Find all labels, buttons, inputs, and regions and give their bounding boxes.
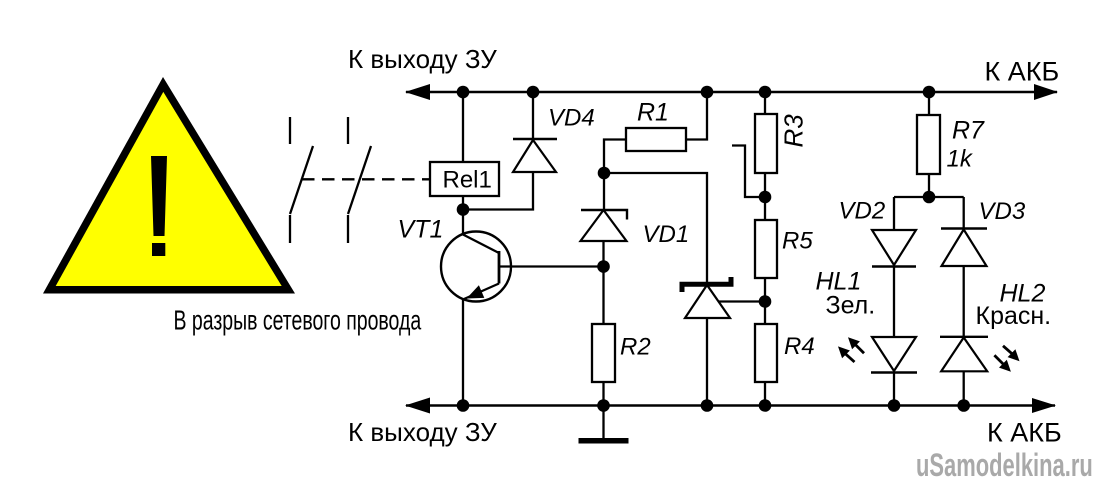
node: R1 / VD1 / TL wire — [598, 167, 611, 180]
svg-text:R3: R3 — [779, 114, 809, 148]
transistor VT1 circle — [441, 232, 511, 302]
LED HL1 triangle (pointing down) — [872, 337, 916, 371]
svg-text:VT1: VT1 — [398, 216, 444, 244]
relay contact S2 blade — [348, 146, 371, 214]
svg-text:К выходу ЗУ: К выходу ЗУ — [348, 417, 497, 447]
trimmer R3 wiper arm — [732, 146, 765, 198]
svg-text:Красн.: Красн. — [976, 302, 1052, 330]
LED HL1 light arrow 1 — [848, 337, 864, 353]
node: HL1 / bottom rail — [888, 399, 901, 412]
wire: node down to ground — [602, 406, 604, 440]
wire: left branch down to VD2 — [893, 197, 895, 230]
wire: Rel1 to collector node — [462, 196, 464, 210]
node: R5 / R4 / VD5 ref — [759, 295, 772, 308]
wire: HL2 to bottom rail — [963, 371, 965, 405]
node: top rail / VD4 — [527, 86, 540, 99]
LED HL2 cathode bar — [940, 336, 988, 338]
LED HL2 light arrow 1 — [1003, 346, 1020, 361]
mechanical linkage dashed line — [302, 178, 430, 180]
wire: R2 bottom to bottom rail — [602, 382, 604, 406]
LED HL1 cathode bar — [871, 371, 917, 373]
node: emitter / bottom rail — [457, 399, 470, 412]
wire: VD4 anode down and left to node — [463, 172, 533, 210]
wire: R1 right up to top rail — [686, 92, 707, 140]
wire: R3 bottom to node — [764, 173, 766, 197]
wire: VT1 base to VD1 node — [499, 265, 604, 267]
diode VD4 triangle — [513, 140, 556, 172]
wire: VT1 emitter to bottom rail — [462, 300, 464, 406]
resistor R7 body — [917, 115, 940, 174]
top rail wire — [406, 91, 1057, 93]
node: top rail / Rel1 — [457, 86, 470, 99]
diode VD4 cathode bar — [513, 138, 557, 140]
node: VD5 / bottom rail — [701, 399, 714, 412]
transistor VT1 emitter diagonal — [464, 284, 499, 300]
relay contact S1 blade — [290, 146, 313, 214]
wire: VD1 anode to base node — [602, 241, 604, 267]
wire: node to R4 top — [764, 302, 766, 325]
node: R2 / bottom rail / ground — [597, 399, 610, 412]
zener diode VD1 cathode bar with hook — [581, 210, 627, 220]
wire: VD3 to HL2 — [963, 266, 965, 337]
resistor R1 body — [626, 128, 686, 151]
relay contact S2 top terminal — [347, 117, 349, 144]
resistor R4 body — [755, 324, 777, 382]
exclamation mark bar — [151, 156, 167, 236]
diode VD2 cathode bar — [872, 265, 916, 267]
LED HL1 light arrow 2 — [838, 346, 855, 362]
wire: R4 bottom to bottom rail — [764, 382, 766, 406]
wire: top rail to Rel1 — [462, 92, 464, 162]
svg-text:R1: R1 — [637, 99, 669, 127]
transistor VT1 base bar — [498, 251, 501, 284]
exclamation mark dot — [152, 243, 165, 256]
relay contact S1 bottom terminal — [289, 215, 291, 243]
bottom rail wire — [406, 404, 1055, 406]
diode VD3 cathode bar — [941, 227, 987, 229]
wire: VD1 top to node — [603, 173, 605, 210]
wire: VD2 to HL1 — [893, 267, 895, 339]
trimmer resistor R3 body — [755, 114, 777, 173]
node: R7 / LED branches — [923, 191, 936, 204]
TL431 / zener VD5 cathode thick bar with bends — [682, 277, 731, 292]
node: top rail / R7 — [923, 86, 936, 99]
wire: top rail to R7 — [928, 92, 930, 115]
bottom rail right arrow — [1032, 398, 1056, 413]
svg-text:VD2: VD2 — [839, 198, 886, 225]
ground symbol — [579, 438, 629, 444]
relay contact S1 top terminal — [289, 117, 291, 144]
warning triangle yellow fill — [56, 92, 282, 286]
svg-text:R5: R5 — [782, 228, 813, 255]
LED HL2 triangle (pointing up) — [941, 338, 987, 372]
wire: node to R2 top — [602, 267, 604, 325]
transistor VT1 emitter arrow — [467, 285, 485, 298]
node: VD1 / base / R2 — [597, 260, 610, 273]
svg-text:R2: R2 — [620, 334, 651, 361]
wire: R7 bottom to split node — [928, 174, 930, 197]
bottom rail left arrow — [405, 398, 430, 414]
relay contact S2 bottom terminal — [347, 215, 349, 243]
svg-text:VD4: VD4 — [548, 105, 595, 132]
wire: VD5 anode to bottom rail — [706, 318, 708, 406]
relay coil Rel1 box — [430, 162, 499, 196]
wire: VD5 ref to R5/R4 node — [719, 300, 766, 302]
top rail right arrow — [1034, 84, 1058, 100]
diode VD2 triangle (pointing down) — [872, 230, 916, 265]
resistor R2 body — [592, 324, 615, 382]
node: Rel1 bottom / VD4 / collector — [457, 203, 470, 216]
watermark uSamodelkina.ru — [916, 447, 1093, 483]
svg-text:R7: R7 — [952, 117, 985, 145]
svg-text:uSamodelkina.ru: uSamodelkina.ru — [916, 447, 1093, 483]
LED HL2 light arrow 2 — [994, 355, 1011, 372]
wire: R5 bottom to node — [764, 278, 766, 302]
node: R3 / R5 — [759, 191, 772, 204]
node: R1 / top rail — [701, 86, 714, 99]
svg-text:VD3: VD3 — [979, 198, 1026, 225]
transistor VT1 collector wire — [462, 210, 464, 236]
wire: R1 left to VD1 top node — [604, 140, 626, 174]
resistor R5 body — [755, 220, 777, 278]
node: HL2 / bottom rail — [957, 399, 970, 412]
caption: В разрыв сетевого провода — [174, 305, 422, 336]
wire: branch split horizontal — [894, 196, 964, 198]
wire: VD1 node right to TL431 cathode — [604, 173, 707, 283]
transistor VT1 collector diagonal — [463, 235, 499, 254]
node: top rail / R3 — [759, 86, 772, 99]
wire: HL1 to bottom rail — [893, 373, 895, 406]
svg-text:Зел.: Зел. — [826, 292, 876, 320]
svg-text:К выходу ЗУ: К выходу ЗУ — [348, 44, 497, 74]
TL431 / zener VD5 triangle — [685, 285, 730, 318]
zener diode VD1 triangle — [581, 210, 627, 241]
svg-text:Rel1: Rel1 — [443, 167, 492, 194]
svg-text:К АКБ: К АКБ — [985, 56, 1060, 86]
svg-text:В разрыв сетевого провода: В разрыв сетевого провода — [174, 305, 422, 336]
svg-text:R4: R4 — [784, 333, 815, 360]
warning triangle border — [43, 77, 295, 294]
wire: node to R5 top — [764, 197, 766, 220]
svg-text:1k: 1k — [947, 146, 974, 173]
diode VD3 triangle (pointing up) — [942, 230, 987, 267]
svg-text:VD1: VD1 — [643, 221, 690, 248]
wire: right branch down to VD3 — [963, 197, 965, 229]
wire: top rail to R3 — [764, 92, 766, 114]
svg-text:К АКБ: К АКБ — [987, 417, 1062, 447]
node: R4 / bottom rail — [759, 399, 772, 412]
wire: top rail to VD4 cathode — [532, 92, 534, 139]
top rail left arrow — [405, 84, 430, 100]
